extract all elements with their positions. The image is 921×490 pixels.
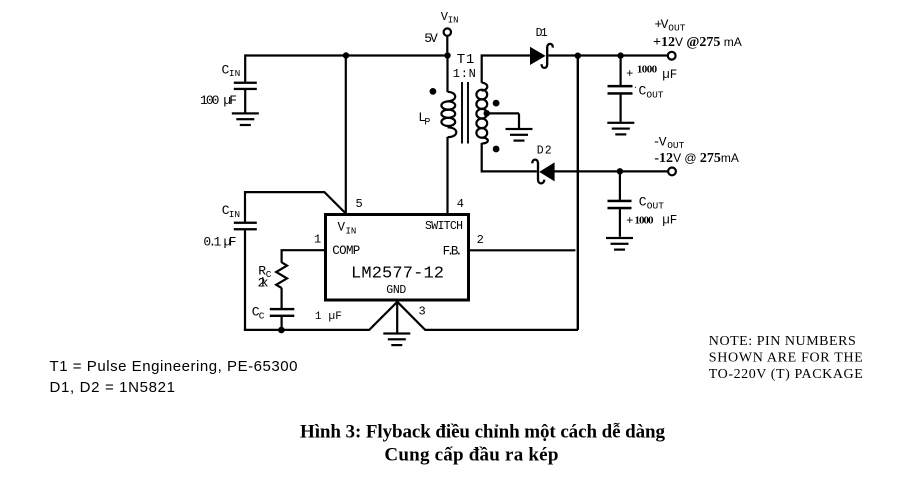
- svg-text:OUT: OUT: [667, 140, 684, 151]
- svg-text:SHOWN ARE FOR THE: SHOWN ARE FOR THE: [709, 350, 863, 365]
- svg-text:-12V @ 275mA: -12V @ 275mA: [654, 151, 739, 166]
- svg-text:P: P: [424, 118, 430, 129]
- svg-text:Cung cấp đầu ra kép: Cung cấp đầu ra kép: [384, 444, 558, 465]
- svg-text:GND: GND: [386, 284, 406, 297]
- svg-text:µF: µF: [662, 68, 677, 82]
- svg-text:1: 1: [314, 233, 321, 247]
- svg-text:IN: IN: [229, 209, 240, 220]
- svg-text:V: V: [338, 221, 346, 235]
- svg-text:+12V @275 mA: +12V @275 mA: [653, 35, 742, 50]
- svg-text:Hình 3: Flyback điều chỉnh một: Hình 3: Flyback điều chỉnh một cách dễ d…: [300, 422, 666, 443]
- svg-text:OUT: OUT: [668, 22, 685, 33]
- svg-text:µF: µF: [662, 213, 677, 227]
- svg-text:LM2577-12: LM2577-12: [351, 264, 444, 283]
- svg-text:C: C: [259, 311, 265, 322]
- svg-text:D1, D2 = 1N5821: D1, D2 = 1N5821: [50, 379, 176, 396]
- svg-text:5: 5: [356, 197, 363, 211]
- svg-text:1 µF: 1 µF: [315, 311, 342, 323]
- svg-text:OUT: OUT: [646, 90, 663, 101]
- svg-text:D1: D1: [536, 27, 548, 40]
- svg-text:C: C: [639, 83, 647, 98]
- svg-text:.: .: [633, 82, 638, 91]
- svg-text:IN: IN: [229, 68, 240, 79]
- svg-text:5V: 5V: [424, 31, 438, 46]
- svg-text:+V: +V: [654, 17, 668, 32]
- svg-text:IN: IN: [346, 226, 357, 236]
- svg-text:1:N: 1:N: [453, 67, 476, 81]
- svg-text:3: 3: [419, 305, 426, 319]
- svg-text:OUT: OUT: [647, 200, 664, 211]
- svg-text:COMP: COMP: [332, 244, 360, 258]
- svg-text:1000: 1000: [635, 214, 655, 226]
- svg-text:1000: 1000: [637, 64, 658, 76]
- svg-text:SWITCH: SWITCH: [425, 220, 463, 233]
- svg-text:F.B.: F.B.: [443, 244, 463, 258]
- svg-text:NOTE: PIN NUMBERS: NOTE: PIN NUMBERS: [709, 334, 856, 349]
- svg-text:+: +: [626, 66, 633, 80]
- svg-text:T1 = Pulse Engineering, PE-653: T1 = Pulse Engineering, PE-65300: [50, 358, 298, 375]
- svg-text:2k: 2k: [258, 276, 269, 291]
- svg-text:-V: -V: [653, 135, 667, 150]
- svg-text:D2: D2: [537, 144, 552, 157]
- svg-text:C: C: [639, 194, 647, 209]
- svg-text:T1: T1: [457, 52, 475, 68]
- svg-text:TO-220V (T) PACKAGE: TO-220V (T) PACKAGE: [709, 367, 863, 382]
- svg-text:2: 2: [477, 233, 484, 247]
- svg-text:0.1 µF: 0.1 µF: [203, 234, 236, 249]
- svg-text:IN: IN: [448, 16, 459, 26]
- svg-text:100 µF: 100 µF: [200, 93, 237, 108]
- svg-text:+: +: [626, 213, 633, 227]
- svg-text:4: 4: [457, 197, 464, 211]
